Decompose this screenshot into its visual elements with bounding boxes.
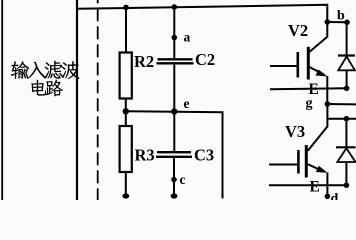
left border line: [1, 0, 3, 200]
svg-text:e: e: [184, 96, 190, 111]
svg-text:E: E: [309, 81, 319, 98]
phase link wire V2e to V3c: [308, 104, 328, 151]
node e dot C: [171, 108, 177, 114]
diode VD3 triangle: [337, 148, 355, 162]
wire e to R3: [125, 111, 127, 126]
node g wire: [327, 103, 356, 105]
label 输入滤波 (input filter) line 1: [11, 61, 80, 79]
diode VD3 cathode bar: [336, 146, 356, 148]
wire R3 bottom: [125, 172, 127, 195]
dashed boundary line: [97, 0, 99, 200]
terminal blob R3: [122, 193, 129, 198]
node b wire: [327, 21, 347, 23]
svg-text:E: E: [310, 178, 320, 195]
IGBT V2 emitter arrowhead: [316, 70, 328, 77]
svg-text:C2: C2: [195, 50, 215, 69]
svg-text:R2: R2: [134, 52, 154, 71]
IGBT V3 emitter arrowhead: [316, 166, 328, 173]
top bus wire: [77, 5, 327, 22]
diode VD2 anode junction dot: [344, 86, 350, 92]
svg-text:a: a: [184, 30, 191, 45]
svg-text:R3: R3: [135, 146, 155, 165]
node g dot: [325, 101, 331, 107]
IGBT V3 emitter vertical: [326, 173, 328, 197]
node b dot left: [325, 19, 331, 25]
diode VD3 anode wire: [345, 162, 347, 185]
IGBT V3 gate lead: [269, 164, 297, 166]
resistor R3: [120, 126, 132, 172]
IGBT V2 collector diagonal: [309, 37, 327, 53]
svg-text:g: g: [306, 96, 313, 111]
svg-text:b: b: [337, 9, 345, 24]
label 电路 (circuit) line 2: [31, 80, 62, 97]
wire C3 to c: [173, 157, 175, 195]
wire C2 to e: [173, 63, 175, 111]
VD3 branch top wire: [327, 118, 356, 120]
input filter block right edge: [76, 0, 78, 200]
V3 emitter E line: [269, 184, 346, 186]
svg-text:d: d: [331, 192, 339, 201]
wire R branch top: [125, 7, 127, 52]
svg-text:V2: V2: [288, 21, 308, 40]
capacitor C2: [158, 58, 193, 60]
wire node e horizontal: [126, 111, 223, 198]
junction dot bus-R: [123, 5, 129, 11]
svg-text:c: c: [180, 172, 186, 187]
capacitor C3: [157, 151, 191, 153]
terminal blob C3: [171, 193, 178, 198]
IGBT V2 collector vertical: [326, 22, 328, 38]
node e dot R: [123, 108, 129, 114]
IGBT V2 gate bar: [296, 52, 299, 78]
junction dot bus-C: [172, 4, 178, 10]
node c dot: [171, 177, 177, 183]
V2 emitter E line: [270, 87, 347, 90]
wire C branch top: [173, 7, 175, 58]
VD3 anode junction dot: [344, 182, 350, 188]
IGBT V3 gate bar: [297, 150, 300, 174]
IGBT V2 emitter diagonal: [309, 67, 324, 75]
wire C3 top: [173, 112, 175, 152]
node a dot: [172, 35, 178, 41]
resistor R2: [120, 53, 132, 99]
diode VD2 anode wire: [346, 70, 348, 88]
diode VD3 branch: [345, 119, 347, 147]
node b dot right: [344, 20, 350, 26]
V3 emitter bottom dot: [325, 194, 331, 200]
wire R2 bottom: [125, 99, 127, 112]
IGBT V2 gate lead: [270, 65, 297, 67]
IGBT V3 body bar: [305, 145, 308, 178]
diode VD2 cathode bar: [338, 54, 355, 56]
IGBT V2 body bar: [307, 47, 310, 80]
diode VD2 triangle: [338, 57, 355, 71]
VD3 top junction dot: [344, 116, 350, 122]
IGBT V3 emitter diagonal: [307, 164, 322, 171]
diode VD2 branch top: [346, 22, 348, 55]
svg-text:V3: V3: [285, 122, 305, 141]
IGBT V2 emitter vertical: [326, 76, 328, 104]
svg-text:C3: C3: [194, 146, 214, 165]
